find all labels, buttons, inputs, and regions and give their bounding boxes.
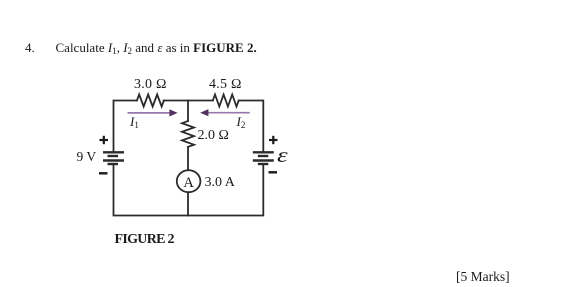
resistor 4.5 ohm: [213, 95, 239, 107]
label I2: [237, 114, 246, 130]
label 2.0 ohm: [198, 128, 229, 144]
label epsilon: [277, 143, 288, 168]
wire bottom: [114, 164, 264, 216]
question number 4.: [25, 40, 35, 56]
resistor 3.0 ohm: [137, 95, 164, 107]
marks label: [456, 269, 510, 285]
plus sign right battery: [269, 136, 278, 144]
label 3.0 ohm: [134, 77, 167, 93]
question text: [56, 40, 257, 56]
label 3.0 A: [205, 175, 235, 191]
wire top-left segment: [114, 101, 137, 153]
current arrow I1: [128, 109, 178, 116]
wire middle to ammeter: [187, 147, 189, 170]
battery epsilon plates: [253, 152, 274, 164]
label I1: [130, 114, 139, 130]
wire ammeter to bottom: [187, 192, 189, 215]
label 4.5 ohm: [209, 77, 242, 93]
wire top-right segment: [239, 101, 264, 153]
minus sign right battery: [269, 171, 278, 173]
wire middle branch upper: [187, 101, 189, 122]
wire top-middle segment: [164, 100, 213, 102]
plus sign left battery: [100, 136, 109, 144]
current arrow I2: [200, 109, 250, 116]
minus sign left battery: [99, 172, 108, 174]
svg-text:A: A: [183, 175, 194, 191]
label 9 V: [77, 149, 97, 165]
battery 9V plates: [103, 152, 124, 164]
caption FIGURE 2: [115, 232, 174, 248]
ammeter A: [177, 170, 201, 192]
resistor 2.0 ohm: [182, 121, 194, 147]
